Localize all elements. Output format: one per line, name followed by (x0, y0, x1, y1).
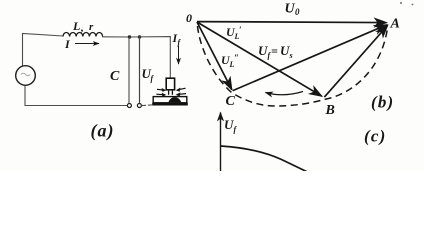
node dot 2 (138, 35, 141, 38)
capacitor branch C (128, 37, 130, 104)
scan speck 2 (412, 4, 414, 6)
svg-text:U: U (285, 2, 296, 17)
terminal circle 1 (127, 104, 131, 108)
curved arrow along locus (266, 92, 304, 95)
arc rays right (179, 88, 186, 94)
wire terminals to plate (142, 104, 154, 107)
wire left-bottom from source to bottom rail (25, 85, 128, 105)
node dot 1 (128, 35, 131, 38)
svg-text:(a): (a) (91, 121, 115, 142)
svg-text:C: C (226, 94, 236, 109)
weld pool (168, 97, 181, 102)
electrode tip ticks (168, 91, 170, 95)
svg-text:″: ″ (234, 53, 239, 63)
phasor UL'' line 0 to C (197, 22, 232, 90)
inductor L,r (63, 33, 103, 37)
svg-text:f: f (151, 74, 155, 83)
svg-text:=: = (271, 44, 278, 58)
svg-text:I: I (64, 37, 71, 51)
current arrow I (75, 43, 99, 45)
wire top-left from source to inductor (23, 34, 64, 67)
current arrow If (178, 46, 180, 64)
dashed semicircle locus (198, 26, 388, 106)
phasor line B to A (324, 25, 387, 97)
phasor U0 line 0 to A (197, 22, 387, 23)
electrode body (166, 78, 174, 90)
scan speck 1 (400, 2, 402, 4)
svg-text:f: f (178, 38, 182, 47)
branch 2 wire (139, 37, 141, 104)
svg-text:A: A (390, 17, 400, 32)
svg-text:U: U (224, 117, 234, 132)
svg-text:(b): (b) (371, 93, 394, 112)
svg-text:(c): (c) (364, 127, 386, 146)
wire node1-node2-corner (130, 37, 171, 79)
AC source G (16, 66, 36, 86)
svg-text:,: , (80, 22, 84, 34)
svg-text:0: 0 (186, 11, 192, 25)
svg-text:C: C (110, 69, 120, 84)
workpiece thick base (152, 102, 188, 105)
svg-text:0: 0 (295, 7, 300, 17)
graph axis Uf (220, 113, 222, 172)
phasor Uf line C to A (233, 25, 387, 91)
arc rays left (156, 89, 163, 94)
svg-text:U: U (258, 43, 268, 58)
workpiece plate (153, 97, 187, 103)
phasor UL' line 0 to B (197, 22, 322, 96)
svg-text:B: B (325, 103, 335, 118)
characteristic curve (221, 146, 307, 172)
svg-text:r: r (89, 21, 94, 33)
svg-text:s: s (289, 51, 293, 60)
terminal circle 2 (137, 104, 141, 108)
wire inductor to node1 (102, 36, 129, 38)
svg-text:U: U (280, 43, 290, 58)
svg-text:′: ′ (239, 25, 242, 35)
svg-text:L: L (72, 19, 80, 33)
svg-text:f: f (234, 125, 238, 134)
